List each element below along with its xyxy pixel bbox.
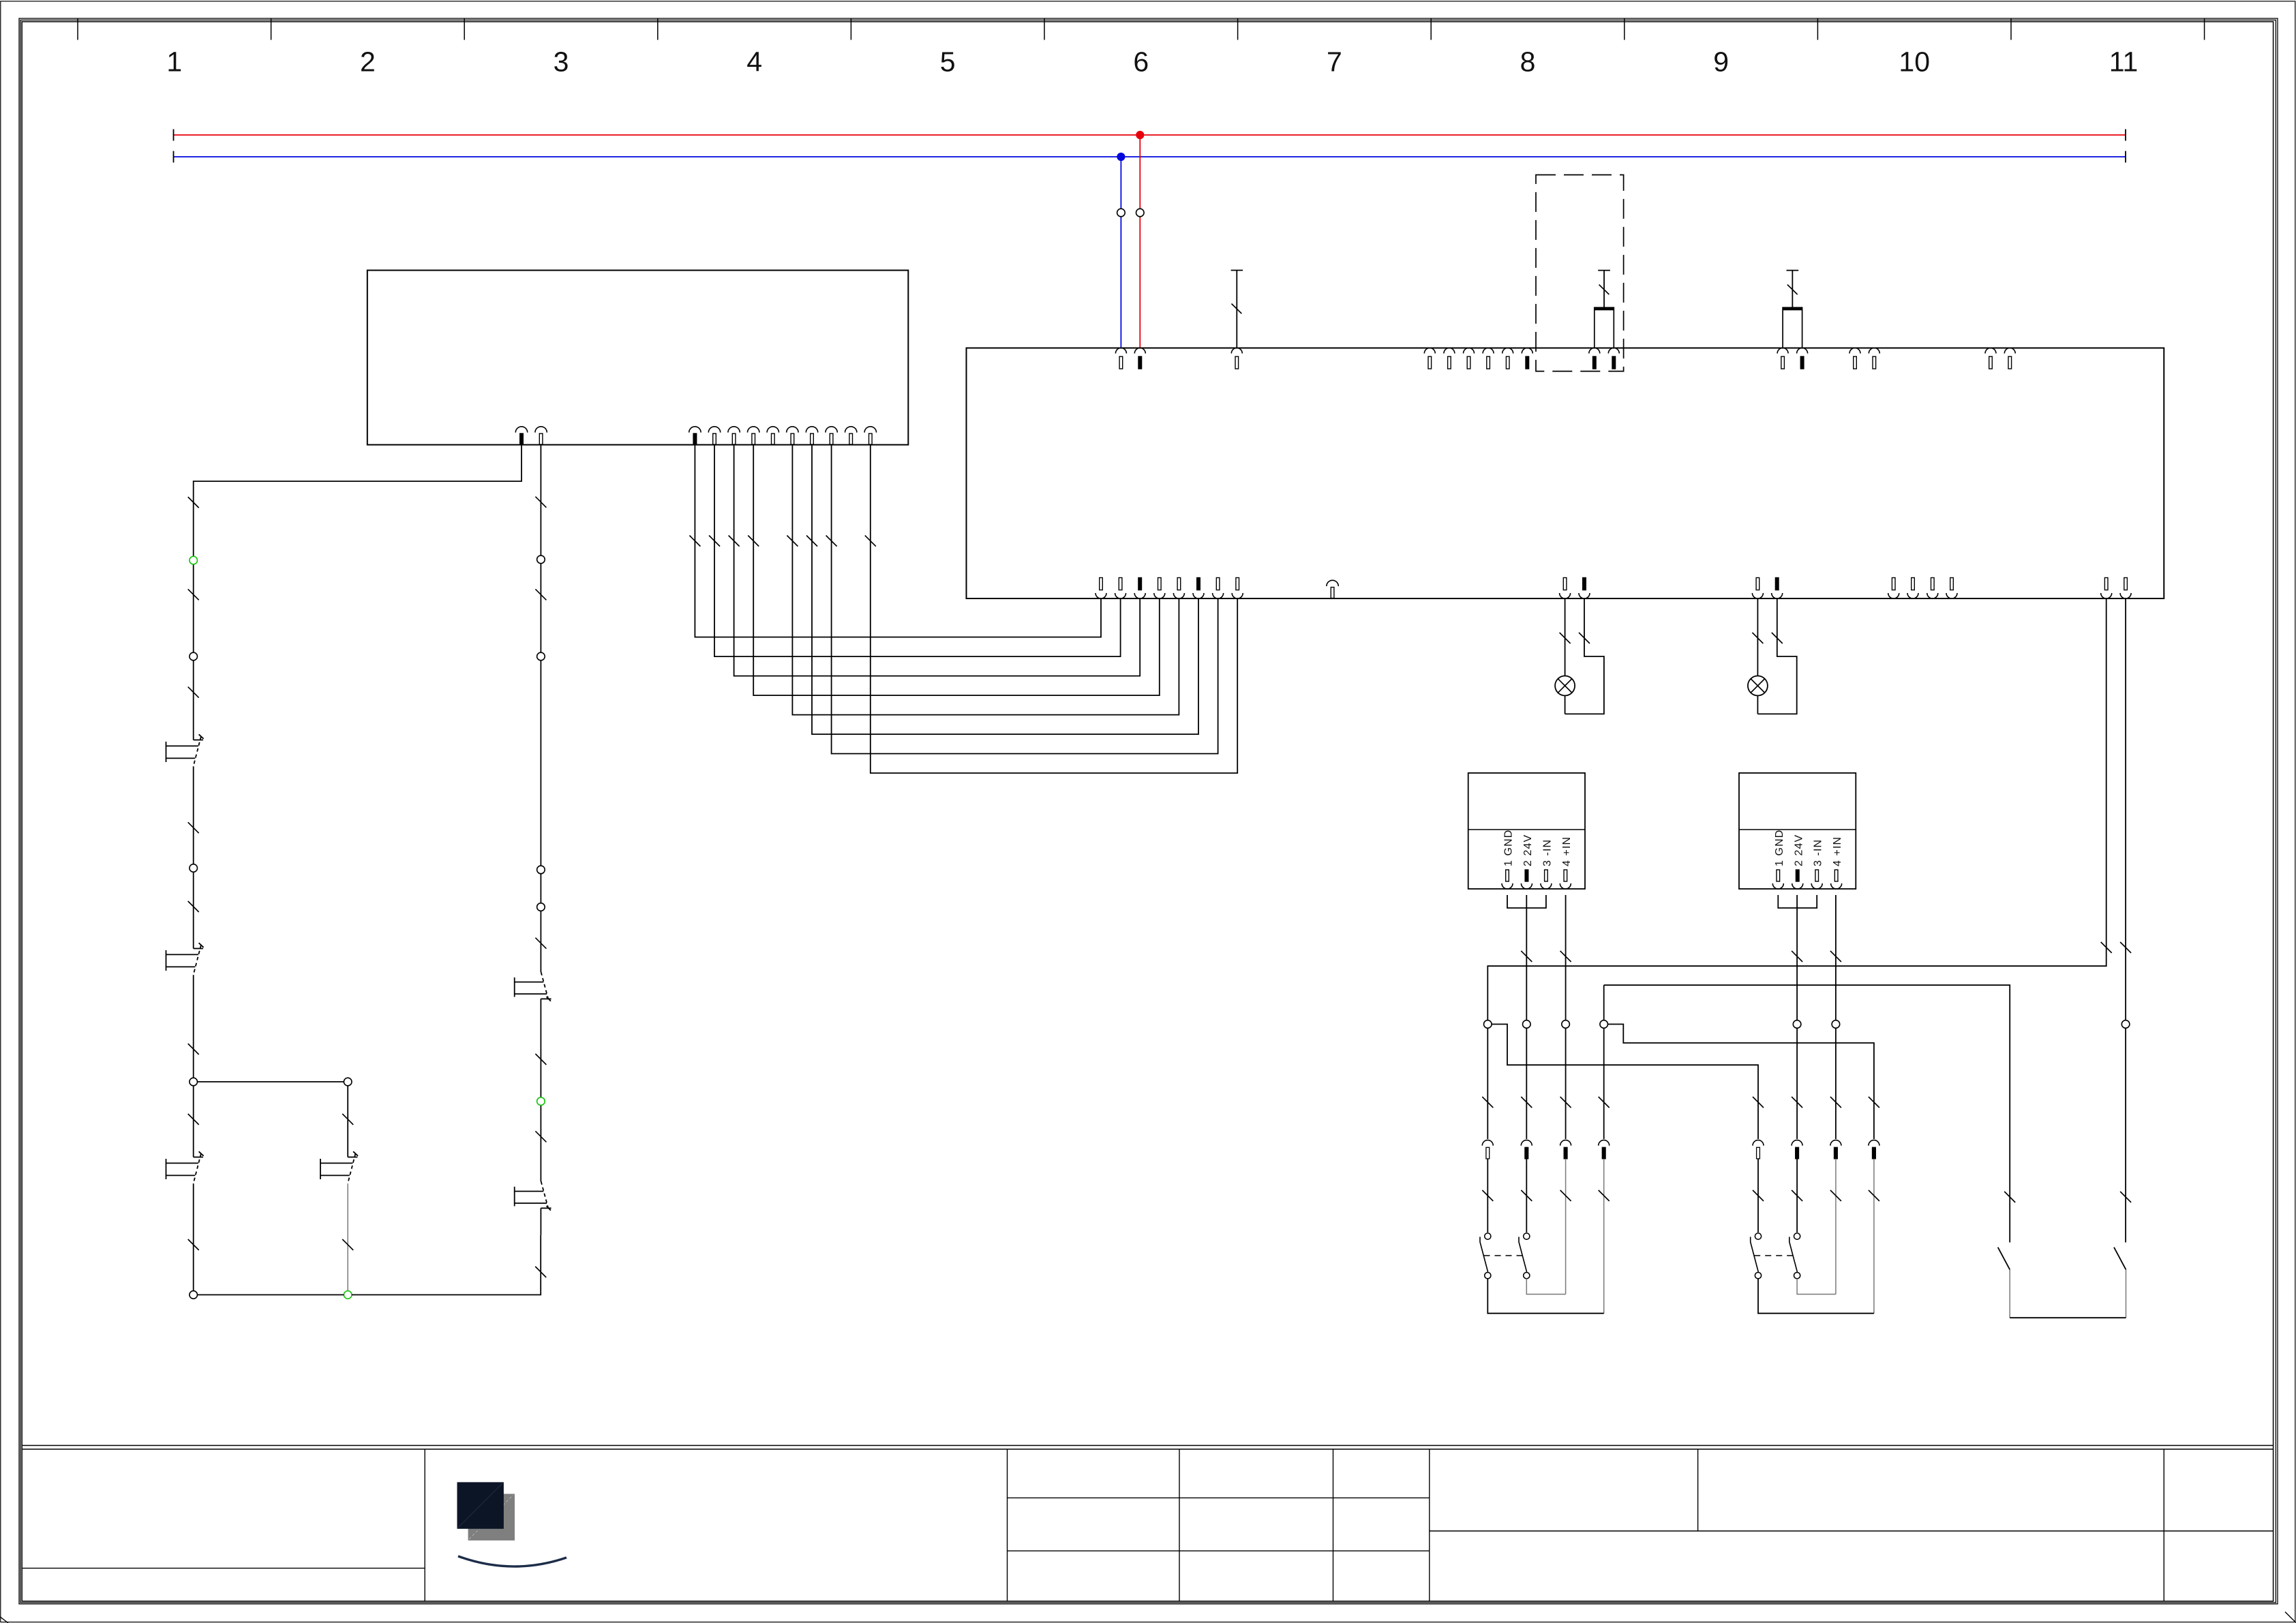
jog wire node4 to switch group 2 wire 4 — [1608, 1025, 1874, 1098]
dashed enclosure box — [1536, 175, 1624, 371]
lamp feed wire — [1757, 598, 1758, 676]
ruler tick — [1624, 18, 1625, 40]
cut slash — [729, 536, 740, 547]
cut slash — [1752, 633, 1763, 643]
ruler tick — [850, 18, 851, 40]
assembly wire w2 mid — [1526, 1159, 1527, 1232]
link wire to switch group 3 left — [1604, 985, 2010, 1242]
cut slash — [1560, 633, 1571, 643]
block bottom lone terminal — [1327, 580, 1338, 586]
PLC terminal — [806, 427, 817, 433]
block bottom terminal — [1232, 593, 1243, 598]
cut slash — [1482, 1097, 1493, 1108]
ruler tick — [464, 18, 465, 40]
block bottom terminal — [1772, 593, 1783, 598]
switch upper contact circle — [1755, 1233, 1761, 1239]
blue rail right end tick — [2125, 151, 2126, 163]
switch upper contact circle — [1524, 1233, 1530, 1239]
assembly wire w2 mid — [1796, 1159, 1798, 1232]
plug node circle — [1832, 1020, 1840, 1029]
connector divider — [1739, 829, 1856, 830]
disconnect switch actuator bar — [1231, 270, 1243, 271]
switch lower contact circle — [1524, 1273, 1530, 1279]
cut slash — [1830, 951, 1841, 962]
PLC terminal — [515, 427, 527, 433]
cut slash — [188, 1239, 199, 1250]
switch2 output wire to w3 — [1526, 1279, 1565, 1294]
connector pin — [1831, 883, 1842, 889]
fuse unit thick top bar — [1783, 307, 1802, 311]
block top terminal — [1797, 348, 1808, 354]
title divider V0 — [424, 1449, 425, 1601]
cut slash — [2004, 1192, 2015, 1202]
assembly wire upper — [1835, 1028, 1837, 1139]
cascade wire — [812, 445, 1198, 735]
cut slash — [188, 589, 199, 600]
PLC terminal — [748, 427, 759, 433]
node vertical B to circle — [1603, 985, 1605, 1020]
block top terminal — [1134, 348, 1145, 354]
title row line H2 — [1008, 1550, 1430, 1551]
assembly wire upper — [1757, 1097, 1759, 1139]
cut slash — [188, 687, 199, 698]
branch R wire — [347, 1086, 348, 1157]
block top terminal — [1424, 348, 1435, 354]
chain A wire — [193, 766, 194, 948]
cut slash — [1869, 1097, 1879, 1108]
node circle — [537, 556, 545, 564]
group3 left contact blade — [1998, 1247, 2010, 1270]
svg-text:4 +IN: 4 +IN — [1832, 836, 1843, 866]
plug node circle — [1600, 1020, 1608, 1029]
svg-text:9: 9 — [1713, 46, 1729, 78]
fuse unit actuator bar — [1787, 270, 1799, 271]
PLC terminal — [767, 427, 779, 433]
cut slash — [2120, 942, 2131, 953]
PLC terminal — [708, 427, 720, 433]
cut slash — [1521, 1190, 1532, 1201]
svg-text:3 -IN: 3 -IN — [1541, 839, 1553, 866]
svg-text:11: 11 — [2109, 46, 2139, 78]
plug node circle — [1793, 1020, 1801, 1029]
block bottom terminal — [1752, 593, 1763, 598]
block bottom terminal — [1115, 593, 1126, 598]
node circle — [537, 652, 545, 661]
svg-text:10: 10 — [1899, 46, 1930, 78]
cut slash — [1830, 1190, 1841, 1201]
cascade wire — [753, 445, 1160, 696]
svg-text:3 -IN: 3 -IN — [1813, 839, 1824, 866]
manual switch contact B1 — [541, 998, 551, 999]
plug node circle — [2121, 1020, 2130, 1029]
title row line H3 — [1430, 1530, 2274, 1532]
ruler tick — [2010, 18, 2012, 40]
title divider V1 — [1179, 1449, 1180, 1601]
sensor connector body — [1739, 773, 1856, 889]
assembly wire w1 mid — [1487, 1159, 1488, 1232]
switch2 output wire to w3 — [1797, 1279, 1836, 1294]
blue rail left end tick — [173, 151, 175, 163]
connector pin — [1541, 883, 1552, 889]
title divider V2 — [1333, 1449, 1334, 1601]
cut slash — [2120, 1192, 2131, 1202]
switch lower contact circle — [1485, 1273, 1491, 1279]
cut slash — [1599, 1190, 1610, 1201]
cut slash — [1753, 1190, 1764, 1201]
ruler tick — [1237, 18, 1239, 40]
block bottom terminal — [1888, 593, 1899, 598]
corner mark bottom-left — [0, 1617, 8, 1623]
manual switch contact A1 — [194, 740, 203, 741]
+24V rail (red) — [174, 134, 2126, 136]
0V rail (blue) — [174, 156, 2126, 157]
block bottom terminal — [1154, 593, 1165, 598]
logo swoosh — [458, 1556, 567, 1566]
node circle — [190, 652, 198, 661]
connector pin — [1792, 883, 1803, 889]
switch upper contact circle — [1794, 1233, 1800, 1239]
block bottom terminal — [2120, 593, 2131, 598]
cut slash — [535, 497, 546, 508]
plug node circle — [1484, 1020, 1492, 1029]
wire +IN conn2 to node — [1835, 895, 1837, 1020]
svg-text:7: 7 — [1327, 46, 1342, 78]
block bottom terminal — [1193, 593, 1204, 598]
disconnect switch slash — [1232, 304, 1242, 314]
connector pin — [1521, 883, 1532, 889]
cut slash — [535, 938, 546, 949]
wire block to node row (far right pair left) — [1487, 598, 2106, 1020]
block bottom terminal — [1560, 593, 1571, 598]
switch lower contact circle — [1794, 1273, 1800, 1279]
svg-text:1: 1 — [166, 46, 182, 78]
cut slash — [1521, 951, 1532, 962]
assembly wire upper — [1487, 1028, 1488, 1139]
logo navy square — [457, 1482, 504, 1528]
svg-text:2 24V: 2 24V — [1522, 834, 1534, 866]
cascade wire — [734, 445, 1141, 676]
chain A wire — [193, 498, 194, 740]
cut slash — [806, 536, 817, 547]
node circle — [537, 903, 545, 911]
GND to -IN jumper — [1507, 895, 1546, 908]
switch blade — [1519, 1237, 1527, 1273]
block top terminal — [1869, 348, 1879, 354]
fuse unit stem — [1792, 271, 1793, 308]
svg-text:4 +IN: 4 +IN — [1561, 836, 1573, 866]
PLC terminal — [535, 427, 547, 433]
fuse unit slash — [1599, 285, 1610, 295]
group3 right lower wire — [2126, 1270, 2127, 1318]
assembly wire w1 mid — [1757, 1159, 1759, 1232]
chain B wire — [540, 498, 541, 972]
sensor connector body — [1468, 773, 1585, 889]
title divider V3 — [1429, 1449, 1430, 1601]
PLC terminal — [787, 427, 798, 433]
block top terminal — [1777, 348, 1788, 354]
cut slash — [1482, 1190, 1493, 1201]
svg-text:3: 3 — [554, 46, 569, 78]
block bottom terminal — [1579, 593, 1590, 598]
assembly wire upper — [1526, 1028, 1527, 1139]
block top terminal — [1444, 348, 1455, 354]
block bottom terminal — [1907, 593, 1918, 598]
title divider V5 — [2163, 1449, 2164, 1601]
switch1 output wire to w4 — [1758, 1279, 1874, 1314]
status circle (green) — [190, 556, 198, 564]
cut slash — [865, 536, 876, 547]
block top terminal — [1483, 348, 1494, 354]
cut slash — [188, 1044, 199, 1055]
assembly wire upper — [1873, 1097, 1875, 1139]
assembly wire w3 (thin) — [1565, 1159, 1567, 1294]
logo gray square diagonal — [469, 1495, 513, 1539]
block top terminal — [1115, 348, 1126, 354]
assembly wire w4 (thin) — [1873, 1159, 1875, 1314]
cascade wire — [871, 445, 1237, 774]
assembly wire w3 (thin) — [1835, 1159, 1837, 1294]
ruler tick — [77, 18, 78, 40]
cut slash — [1599, 1097, 1610, 1108]
block top terminal — [1231, 348, 1242, 354]
inline plug connector — [1753, 1140, 1764, 1146]
block bottom terminal — [1096, 593, 1106, 598]
wire PLC to chain B — [540, 445, 541, 498]
assembly wire upper — [1565, 1028, 1567, 1139]
cut slash — [709, 536, 720, 547]
mechanical coupling dashes — [1484, 1255, 1523, 1256]
red rail right end tick — [2125, 130, 2126, 141]
cut slash — [1772, 633, 1783, 643]
ruler tick — [1430, 18, 1432, 40]
cut slash — [1792, 951, 1802, 962]
lamp bottom wire — [1757, 696, 1758, 714]
PLC terminal — [845, 427, 857, 433]
block top terminal — [1589, 348, 1600, 354]
fuse unit body — [1595, 307, 1614, 348]
switch blade — [1789, 1237, 1798, 1273]
cut slash — [787, 536, 798, 547]
cut slash — [1830, 1097, 1841, 1108]
inline plug connector — [1792, 1140, 1802, 1146]
PLC terminal — [864, 427, 876, 433]
PLC terminal — [728, 427, 740, 433]
switch lower contact circle — [1755, 1273, 1761, 1279]
logo gray square — [468, 1494, 515, 1541]
svg-text:2: 2 — [360, 46, 376, 78]
block bottom terminal — [2101, 593, 2112, 598]
parallel node circle left — [190, 1078, 198, 1086]
block top terminal — [1849, 348, 1860, 354]
switch upper contact circle — [1485, 1233, 1491, 1239]
wire PLC to left chain A — [194, 445, 522, 498]
block top terminal — [1608, 348, 1619, 354]
cut slash — [1560, 1097, 1571, 1108]
cut slash — [535, 1131, 546, 1142]
title row line H1 — [1008, 1497, 1430, 1498]
branch L wire — [193, 1183, 194, 1290]
cut slash — [342, 1114, 353, 1125]
block bottom terminal — [1134, 593, 1145, 598]
svg-text:8: 8 — [1520, 46, 1536, 78]
PLC terminal — [689, 427, 701, 433]
manual switch contact A4 — [348, 1157, 357, 1158]
PLC terminal — [826, 427, 837, 433]
svg-text:2 24V: 2 24V — [1793, 834, 1804, 866]
connector pin — [1811, 883, 1822, 889]
bottom rail right — [352, 1235, 541, 1295]
assembly wire w4 (thin) — [1603, 1159, 1605, 1314]
plug node circle — [1523, 1020, 1531, 1029]
lamp return wire — [1565, 598, 1604, 714]
cut slash — [535, 1054, 546, 1065]
assembly wire upper — [1796, 1028, 1798, 1139]
cut slash — [535, 589, 546, 600]
cut slash — [1560, 951, 1571, 962]
plug node circle — [1562, 1020, 1570, 1029]
wire +IN conn1 to node — [1565, 895, 1567, 1020]
inline plug connector — [1482, 1140, 1493, 1146]
block top terminal — [1985, 348, 1996, 354]
bottom node circle — [190, 1291, 198, 1299]
group3 right contact blade — [2114, 1247, 2126, 1270]
lamp return wire — [1757, 598, 1796, 714]
switch blade — [1751, 1237, 1759, 1273]
cut slash — [1792, 1190, 1802, 1201]
node circle — [190, 864, 198, 873]
fuse unit actuator bar — [1598, 270, 1610, 271]
lamp — [1555, 676, 1575, 696]
inline plug connector — [1869, 1140, 1879, 1146]
block bottom terminal — [1946, 593, 1957, 598]
red junction dot — [1136, 131, 1144, 138]
group3 left wire — [2125, 1028, 2126, 1243]
manual switch contact B2 — [541, 1207, 551, 1209]
jog wire node1 to switch group 2 wire 1 — [1492, 1025, 1758, 1098]
ruler tick — [271, 18, 272, 40]
lamp feed wire — [1565, 598, 1566, 676]
cut slash — [1792, 1097, 1802, 1108]
svg-text:1 GND: 1 GND — [1503, 830, 1515, 866]
fuse unit body — [1783, 307, 1802, 348]
fuse unit stem — [1603, 271, 1605, 308]
fuse unit thick top bar — [1595, 307, 1614, 311]
cut slash — [1521, 1097, 1532, 1108]
cut slash — [188, 497, 199, 508]
PLC block — [367, 271, 909, 445]
block bottom terminal — [1213, 593, 1224, 598]
title divider V4 — [1697, 1449, 1699, 1531]
disconnect switch stem — [1236, 271, 1237, 348]
cascade wire — [792, 445, 1179, 715]
title left cell divider — [22, 1568, 425, 1569]
lamp — [1748, 676, 1768, 696]
status circle (green) — [537, 1097, 545, 1106]
inline plug connector — [1521, 1140, 1532, 1146]
blue feeder wire — [1120, 157, 1121, 348]
block bottom terminal — [1173, 593, 1184, 598]
block top terminal — [1464, 348, 1475, 354]
cut slash — [188, 822, 199, 833]
fuse unit slash — [1787, 285, 1798, 295]
bottom node circle (green) — [344, 1291, 352, 1299]
svg-text:1 GND: 1 GND — [1774, 830, 1785, 866]
wire 24V conn2 to node — [1796, 895, 1798, 1020]
block top terminal — [2004, 348, 2015, 354]
block top terminal — [1522, 348, 1532, 354]
connector divider — [1468, 829, 1585, 830]
red feeder wire — [1139, 135, 1141, 348]
inline plug connector — [1560, 1140, 1571, 1146]
cut slash — [1869, 1190, 1879, 1201]
I/O block — [967, 348, 2164, 599]
cut slash — [188, 901, 199, 912]
connector pin — [1772, 883, 1783, 889]
cut slash — [826, 536, 837, 547]
node circle — [537, 866, 545, 874]
branch R wire — [347, 1183, 348, 1290]
chain B wire — [540, 999, 541, 1181]
red rail left end tick — [173, 130, 175, 141]
wire 24V conn1 to node — [1526, 895, 1527, 1020]
block bottom terminal — [1927, 593, 1938, 598]
cut slash — [535, 1266, 546, 1277]
assembly wire upper — [1603, 1028, 1605, 1139]
switch1 output wire to w4 — [1487, 1279, 1603, 1314]
chain B wire — [540, 1208, 541, 1234]
inline plug connector — [1599, 1140, 1610, 1146]
ruler tick — [657, 18, 659, 40]
block top terminal — [1502, 348, 1513, 354]
test point circle on red feeder — [1136, 209, 1145, 217]
cut slash — [342, 1239, 353, 1250]
lamp bottom wire — [1565, 696, 1566, 714]
title block top line — [22, 1445, 2273, 1446]
bottom rail left — [198, 1294, 344, 1296]
cascade wire — [695, 445, 1101, 637]
manual switch contact A3 — [194, 1157, 203, 1158]
corner mark bottom-right — [2285, 1612, 2296, 1623]
cut slash — [1579, 633, 1590, 643]
cut slash — [689, 536, 700, 547]
ruler tick — [1044, 18, 1045, 40]
title divider VL — [1007, 1449, 1008, 1601]
GND to -IN jumper — [1778, 895, 1817, 908]
svg-text:4: 4 — [746, 46, 762, 78]
cut slash — [1560, 1190, 1571, 1201]
group3 bottom link — [2010, 1317, 2126, 1318]
ruler tick — [2204, 18, 2205, 40]
cut slash — [1753, 1097, 1764, 1108]
cut slash — [2101, 942, 2112, 953]
inline plug connector — [1830, 1140, 1841, 1146]
connector pin — [1502, 883, 1513, 889]
ruler tick — [1817, 18, 1818, 40]
connector pin — [1560, 883, 1571, 889]
switch blade — [1480, 1237, 1488, 1273]
chain A wire — [193, 975, 194, 1078]
logo navy square diagonal — [458, 1483, 502, 1528]
branch L wire — [193, 1086, 194, 1157]
blue junction dot — [1117, 153, 1125, 160]
wire block to node row (far right pair right) — [2125, 598, 2126, 1020]
cascade wire — [714, 445, 1121, 657]
parallel top link — [198, 1081, 344, 1082]
manual switch contact A2 — [194, 948, 203, 950]
cut slash — [188, 1114, 199, 1125]
mechanical coupling dashes — [1754, 1255, 1793, 1256]
test point circle on blue feeder — [1117, 209, 1126, 217]
